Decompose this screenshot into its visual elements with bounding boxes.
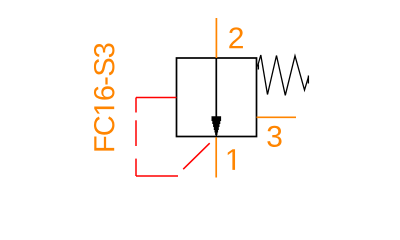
spring start tick <box>257 65 259 70</box>
F <box>94 136 114 150</box>
pilot line vertical dash 1 <box>135 98 137 113</box>
1 <box>94 107 114 114</box>
flow arrow stem <box>215 58 217 118</box>
port 2 label <box>229 27 243 48</box>
port 3 line (orange, right) <box>257 116 297 118</box>
pilot line bottom horizontal segment <box>136 175 178 177</box>
spring (zigzag) <box>258 55 309 95</box>
port 3 label <box>267 126 281 147</box>
3 <box>94 43 115 57</box>
pilot line horizontal segment (red, from valve left edge) <box>136 97 177 99</box>
valve body V1 (square envelope) <box>177 58 257 137</box>
pilot line vertical dash 2 <box>135 120 137 146</box>
C <box>94 116 115 134</box>
6 <box>94 86 115 99</box>
pilot line diagonal dash (to port 1 junction) <box>183 143 210 169</box>
pilot line vertical dash 3 <box>135 159 137 176</box>
flow arrowhead (stepped cone) <box>212 116 222 136</box>
S <box>94 59 115 76</box>
hyphen <box>105 77 107 84</box>
port 1 line (orange, bottom) <box>215 137 217 177</box>
model code label FC16-S3 (rotated 90&#176; CCW) <box>94 43 115 150</box>
port 1 label <box>228 149 235 170</box>
spring end tick <box>307 76 309 84</box>
port 2 line (orange, top) <box>215 18 217 58</box>
